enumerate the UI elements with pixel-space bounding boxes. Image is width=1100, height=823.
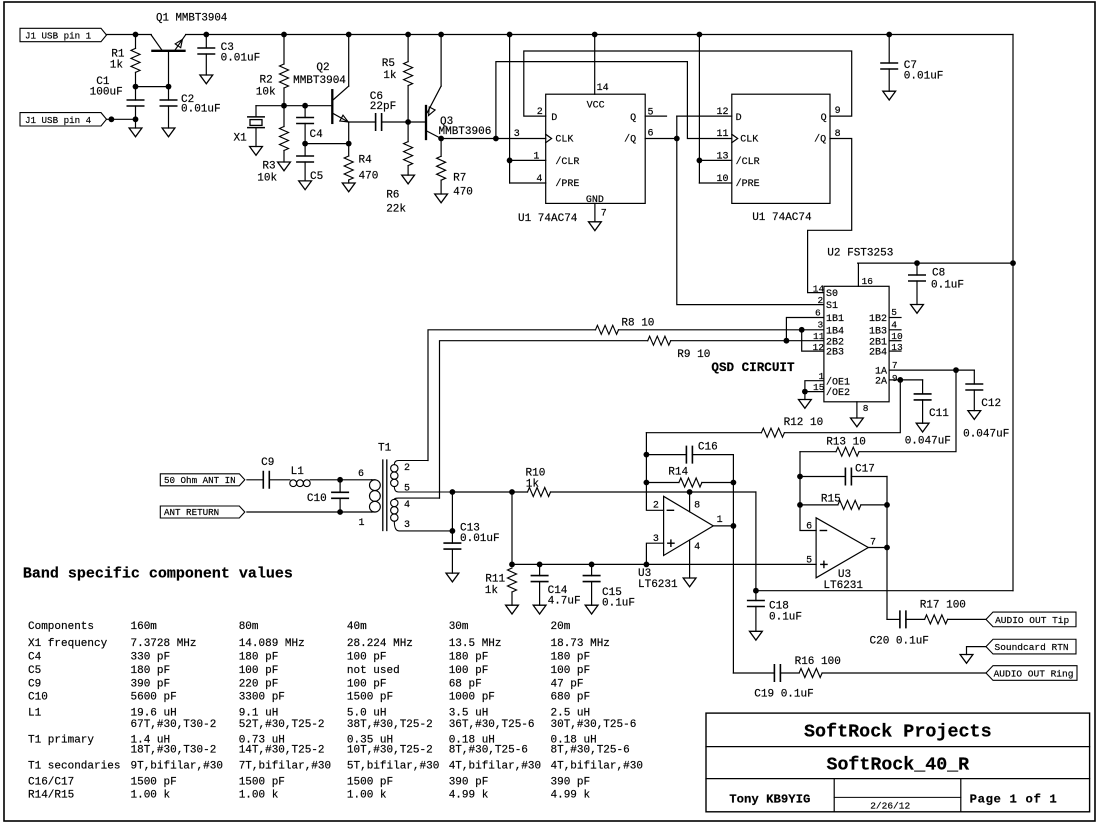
resistor R9 — [440, 341, 648, 498]
wire 2A output — [889, 379, 923, 381]
wire J1 pin1 to rail — [107, 34, 152, 36]
svg-text:4.99 k: 4.99 k — [551, 790, 591, 802]
svg-text:R11: R11 — [485, 574, 505, 586]
node rail pullup U1b — [697, 32, 703, 38]
resistor R3 — [283, 106, 285, 127]
node pin3/C13 — [450, 528, 456, 534]
svg-text:9.1 uH: 9.1 uH — [239, 708, 279, 720]
wire U1a Q pin5 stub — [645, 115, 666, 117]
svg-text:U1 74AC74: U1 74AC74 — [752, 212, 812, 224]
capacitor C3 — [205, 35, 207, 49]
svg-text:14.089 MHz: 14.089 MHz — [239, 638, 305, 650]
resistor R1 — [135, 35, 137, 49]
svg-text:390 pF: 390 pF — [449, 776, 489, 788]
svg-text:0.01uF: 0.01uF — [181, 104, 221, 116]
capacitor C1 — [135, 87, 137, 100]
svg-text:14T,#30,T25-2: 14T,#30,T25-2 — [239, 745, 325, 757]
ground under C13 — [446, 573, 459, 582]
node 1B4/2B3 link — [799, 327, 805, 333]
ground under R4 — [342, 183, 355, 192]
svg-text:10k: 10k — [257, 173, 277, 185]
mux U2 FST3253 — [824, 286, 889, 402]
resistor R10 — [452, 491, 527, 493]
ground under R6 — [402, 175, 415, 184]
svg-text:5T,bifilar,#30: 5T,bifilar,#30 — [347, 761, 439, 773]
svg-text:4: 4 — [694, 542, 700, 553]
node bias/R11 — [509, 562, 515, 568]
wire U1a pin7 GND — [594, 203, 596, 221]
svg-text:68 pF: 68 pF — [449, 678, 482, 690]
svg-text:/CLR: /CLR — [555, 156, 579, 168]
capacitor C11 — [922, 380, 924, 394]
svg-text:330 pF: 330 pF — [131, 652, 171, 664]
svg-text:C16/C17: C16/C17 — [28, 776, 74, 788]
svg-text:C17: C17 — [855, 464, 875, 476]
ground under C14 — [533, 605, 546, 614]
wire bias line — [512, 563, 816, 565]
node C6/R5/R6/Q3 base — [405, 119, 411, 125]
svg-text:R5: R5 — [382, 58, 395, 70]
capacitor C19 — [774, 665, 780, 681]
svg-text:4: 4 — [404, 500, 410, 511]
svg-text:1k: 1k — [485, 585, 499, 597]
flip-flop U1b 74AC74 — [732, 94, 830, 203]
svg-text:1: 1 — [717, 515, 723, 526]
svg-text:2: 2 — [404, 463, 410, 474]
svg-text:8: 8 — [863, 403, 869, 414]
plus sign U3b — [821, 563, 827, 565]
crystal X1 — [255, 106, 257, 117]
wire V+ down to C18 — [755, 492, 757, 591]
resistor R5 — [407, 35, 409, 62]
svg-text:T1: T1 — [378, 443, 392, 455]
svg-text:67T,#30,T30-2: 67T,#30,T30-2 — [131, 719, 217, 731]
svg-text:1B4: 1B4 — [826, 326, 844, 337]
svg-text:100 pF: 100 pF — [347, 678, 387, 690]
svg-text:not used: not used — [347, 665, 400, 677]
ground under /OE — [799, 400, 812, 409]
capacitor C9 — [247, 479, 263, 481]
svg-text:1k: 1k — [110, 60, 124, 72]
title block date line — [834, 796, 961, 798]
svg-text:J1 USB pin 1: J1 USB pin 1 — [25, 31, 92, 42]
pin 8 ground U2 — [856, 402, 858, 418]
svg-text:7: 7 — [870, 538, 876, 549]
svg-text:18.73 MHz: 18.73 MHz — [551, 638, 610, 650]
wire U3a feedback left vertical — [645, 433, 647, 483]
node rail/R1 — [133, 32, 139, 38]
svg-text:1500 pF: 1500 pF — [347, 692, 393, 704]
svg-text:28.224 MHz: 28.224 MHz — [347, 638, 413, 650]
resistor R15 — [800, 504, 838, 506]
svg-text:20m: 20m — [551, 621, 571, 633]
svg-text:4T,bifilar,#30: 4T,bifilar,#30 — [449, 761, 541, 773]
svg-text:180 pF: 180 pF — [239, 652, 279, 664]
svg-text:47 pF: 47 pF — [551, 678, 584, 690]
node rail/Q3 emitter — [438, 32, 444, 38]
svg-text:D: D — [736, 113, 742, 124]
svg-text:/Q: /Q — [814, 134, 826, 146]
title block row line 1 — [706, 746, 1090, 748]
wire U1a /Q pin6 — [645, 138, 677, 140]
node C1/pin4/ground — [133, 116, 139, 122]
svg-text:19.6 uH: 19.6 uH — [131, 708, 177, 720]
resistor R13 — [859, 370, 956, 452]
net flag 50 Ohm ANT IN — [160, 474, 245, 486]
svg-text:Tony KB9YIG: Tony KB9YIG — [729, 793, 810, 807]
svg-text:180 pF: 180 pF — [131, 665, 171, 677]
stub 1B3 — [889, 329, 901, 331]
transistor Q2 MMBT3904 — [331, 90, 333, 123]
node bias/C14 — [537, 562, 543, 568]
capacitor C18 — [755, 591, 757, 601]
svg-text:9: 9 — [892, 373, 898, 384]
svg-text:/CLR: /CLR — [736, 156, 760, 168]
capacitor C14 — [539, 564, 541, 575]
node 1B1/R9 net — [784, 338, 790, 344]
svg-text:3: 3 — [514, 129, 520, 140]
node V+ wire/pin8 — [687, 489, 693, 495]
svg-text:QSD CIRCUIT: QSD CIRCUIT — [711, 361, 795, 375]
svg-text:C9: C9 — [261, 457, 274, 469]
title block column line 1 — [833, 779, 835, 812]
svg-text:1k: 1k — [526, 479, 540, 491]
svg-text:100 pF: 100 pF — [551, 665, 591, 677]
svg-text:13.5 MHz: 13.5 MHz — [449, 638, 502, 650]
wire U3a pin4 ground — [689, 540, 691, 578]
svg-text:C19 0.1uF: C19 0.1uF — [754, 689, 813, 701]
svg-text:2/26/12: 2/26/12 — [870, 800, 910, 811]
svg-text:100 pF: 100 pF — [239, 665, 279, 677]
svg-text:470: 470 — [453, 187, 473, 199]
node Q1 base/C2 — [166, 84, 172, 90]
minus sign U3a — [667, 509, 673, 511]
svg-text:1B3: 1B3 — [869, 326, 887, 337]
svg-text:100uF: 100uF — [90, 87, 123, 99]
svg-text:T1 secondaries: T1 secondaries — [28, 761, 120, 773]
svg-text:0.01uF: 0.01uF — [904, 70, 944, 82]
svg-text:C10: C10 — [28, 692, 48, 704]
ground under C8 — [911, 305, 924, 314]
svg-text:4: 4 — [891, 319, 897, 330]
ground under C7 — [883, 91, 896, 100]
svg-text:470: 470 — [359, 171, 379, 183]
svg-text:36T,#30,T25-6: 36T,#30,T25-6 — [449, 719, 535, 731]
node Q3 collector/R7 — [438, 136, 444, 142]
svg-text:10T,#30,T25-2: 10T,#30,T25-2 — [347, 745, 433, 757]
svg-text:9T,bifilar,#30: 9T,bifilar,#30 — [131, 761, 223, 773]
capacitor C6 — [349, 121, 376, 123]
svg-text:X1 frequency: X1 frequency — [28, 638, 108, 650]
svg-text:T1 primary: T1 primary — [28, 734, 94, 746]
svg-text:C9: C9 — [28, 678, 41, 690]
wire divider to bias line — [511, 492, 513, 564]
svg-text:S0: S0 — [826, 289, 838, 300]
node /Q U1a — [674, 136, 680, 142]
resistor R7 — [440, 139, 442, 157]
flip-flop U1a 74AC74 — [546, 94, 646, 203]
svg-text:VCC: VCC — [587, 100, 605, 111]
svg-text:180 pF: 180 pF — [551, 652, 591, 664]
transformer T1 secondary A — [391, 465, 398, 472]
node 1A/R13 — [953, 367, 959, 373]
title block frame — [706, 713, 1090, 812]
svg-text:14: 14 — [813, 283, 825, 294]
svg-text:80m: 80m — [239, 621, 259, 633]
wire audio ring net — [733, 672, 774, 674]
svg-text:J1 USB pin 4: J1 USB pin 4 — [25, 115, 92, 126]
wire /OE1 /OE2 ground — [805, 381, 824, 392]
resistor R6 — [407, 122, 409, 142]
ground under C12 — [968, 411, 981, 420]
svg-text:CLK: CLK — [555, 135, 573, 146]
svg-text:30m: 30m — [449, 621, 469, 633]
node C4/base wire — [302, 103, 308, 109]
svg-text:R12 10: R12 10 — [784, 417, 824, 429]
svg-text:/Q: /Q — [624, 134, 636, 146]
capacitor C20 — [887, 618, 900, 620]
wire U1a pin14 VCC — [594, 35, 596, 95]
transformer T1 core — [382, 460, 384, 531]
svg-text:C11: C11 — [929, 408, 949, 420]
node C18 — [753, 588, 759, 594]
node R14 left — [644, 480, 650, 486]
svg-text:R3: R3 — [262, 161, 275, 173]
node C10 bottom — [337, 509, 343, 515]
svg-text:C12: C12 — [981, 398, 1001, 410]
capacitor C13 — [451, 531, 453, 543]
node rail/C8 branch — [1010, 260, 1016, 266]
node R1/C1 — [133, 84, 139, 90]
svg-text:2B1: 2B1 — [869, 337, 887, 348]
svg-text:5: 5 — [404, 483, 410, 494]
svg-text:/OE2: /OE2 — [826, 387, 850, 399]
wire U1a /CLR /PRE pullup — [509, 35, 511, 184]
stub 2B4 — [889, 350, 901, 352]
wire U3b feedback right vertical — [886, 477, 888, 620]
svg-text:U2 FST3253: U2 FST3253 — [827, 247, 893, 259]
wire U3a non-inverting input — [646, 543, 663, 564]
node rail pullup U1a — [507, 32, 513, 38]
wire oscillator base node — [256, 105, 332, 107]
svg-text:AUDIO OUT Tip: AUDIO OUT Tip — [995, 615, 1069, 626]
resistor R14 — [646, 482, 679, 484]
svg-text:SoftRock Projects: SoftRock Projects — [804, 722, 992, 743]
svg-text:LT6231: LT6231 — [823, 580, 863, 592]
node R10/R11 divider — [509, 489, 515, 495]
wire CLK net up and over to U1b CLK — [496, 62, 732, 139]
svg-text:ANT RETURN: ANT RETURN — [164, 507, 219, 518]
capacitor C17 — [800, 476, 845, 478]
svg-text:4T,bifilar,#30: 4T,bifilar,#30 — [551, 761, 643, 773]
inductor L1 — [290, 480, 297, 487]
svg-text:8T,#30,T25-6: 8T,#30,T25-6 — [551, 745, 630, 757]
svg-text:Q1 MMBT3904: Q1 MMBT3904 — [156, 13, 227, 25]
svg-text:10k: 10k — [256, 87, 276, 99]
svg-text:C5: C5 — [28, 665, 41, 677]
svg-text:/PRE: /PRE — [555, 178, 579, 190]
svg-text:22k: 22k — [386, 203, 406, 215]
resistor R11 — [508, 568, 517, 592]
capacitor C4 — [304, 106, 306, 118]
ground under X1 — [250, 147, 263, 156]
wire C4/C5 node to Q2 emitter — [305, 143, 349, 145]
svg-text:R14: R14 — [668, 467, 688, 479]
svg-text:X1: X1 — [233, 133, 247, 145]
svg-text:52T,#30,T25-2: 52T,#30,T25-2 — [239, 719, 325, 731]
svg-text:180 pF: 180 pF — [449, 652, 489, 664]
svg-text:C10: C10 — [307, 493, 327, 505]
svg-text:MMBT3904: MMBT3904 — [293, 75, 346, 87]
svg-text:0.1uF: 0.1uF — [602, 598, 635, 610]
wire L1 to T1 pin6 — [310, 479, 371, 481]
node rail/Q2 collector — [346, 32, 352, 38]
svg-text:Page 1 of 1: Page 1 of 1 — [970, 793, 1058, 807]
svg-text:18T,#30,T30-2: 18T,#30,T30-2 — [131, 745, 217, 757]
svg-text:390 pF: 390 pF — [131, 678, 171, 690]
wire R1 node to C2 node — [136, 86, 169, 88]
svg-text:3300 pF: 3300 pF — [239, 692, 285, 704]
svg-text:12: 12 — [717, 107, 729, 118]
node emitter/R4 — [346, 141, 352, 147]
wire 1B1 link — [786, 318, 824, 341]
ground under C11 — [916, 423, 929, 432]
svg-text:C8: C8 — [932, 267, 945, 279]
capacitor C12 — [973, 370, 975, 384]
net flag AUDIO OUT Tip — [986, 612, 1076, 627]
svg-text:7.3728 MHz: 7.3728 MHz — [131, 638, 197, 650]
svg-text:100 pF: 100 pF — [449, 665, 489, 677]
node U3a output — [731, 523, 737, 529]
svg-text:C16: C16 — [698, 442, 718, 454]
svg-text:5: 5 — [648, 108, 654, 119]
wire 2B3 link — [802, 330, 824, 351]
svg-text:680 pF: 680 pF — [551, 692, 591, 704]
stub 1B2 — [889, 317, 901, 319]
node rail/R2 — [281, 32, 287, 38]
svg-text:1500 pF: 1500 pF — [347, 776, 393, 788]
svg-text:D: D — [551, 113, 557, 124]
node C17 left — [797, 474, 803, 480]
wire C6 node to Q3 base — [408, 121, 426, 123]
title block row line 2 — [706, 778, 1090, 780]
svg-text:22pF: 22pF — [370, 101, 396, 113]
node bias/pin3 — [644, 562, 650, 568]
svg-text:L1: L1 — [291, 466, 305, 478]
svg-text:2B2: 2B2 — [826, 337, 844, 348]
svg-text:4.99 k: 4.99 k — [449, 790, 489, 802]
svg-text:R9 10: R9 10 — [677, 349, 710, 361]
capacitor C15 — [591, 564, 593, 575]
svg-text:R7: R7 — [453, 173, 466, 185]
svg-text:30T,#30,T25-6: 30T,#30,T25-6 — [551, 719, 637, 731]
node bias/C15 — [589, 562, 595, 568]
ground under U3a pin4 — [683, 578, 696, 587]
node /CLR U1b — [697, 158, 703, 164]
net flag J1 USB pin 1 — [20, 28, 107, 41]
node U3b output — [884, 545, 890, 551]
svg-text:3: 3 — [404, 520, 410, 531]
svg-text:AUDIO OUT Ring: AUDIO OUT Ring — [994, 669, 1074, 680]
svg-text:Soundcard RTN: Soundcard RTN — [995, 642, 1069, 653]
svg-text:1500 pF: 1500 pF — [131, 776, 177, 788]
svg-text:2B3: 2B3 — [826, 348, 844, 359]
svg-text:LT6231: LT6231 — [638, 579, 678, 591]
svg-text:5.0 uH: 5.0 uH — [347, 708, 387, 720]
svg-text:C20 0.1uF: C20 0.1uF — [870, 635, 929, 647]
svg-text:1B1: 1B1 — [826, 314, 844, 325]
capacitor C5 — [304, 144, 306, 156]
node R15 left — [797, 502, 803, 508]
svg-text:R2: R2 — [259, 75, 272, 87]
svg-text:5600 pF: 5600 pF — [131, 692, 177, 704]
node rail/C3 — [203, 32, 209, 38]
svg-text:R14/R15: R14/R15 — [28, 790, 74, 802]
svg-text:8T,#30,T25-6: 8T,#30,T25-6 — [449, 745, 528, 757]
ground under U1a — [589, 222, 602, 231]
svg-text:/PRE: /PRE — [736, 178, 760, 190]
svg-text:R17 100: R17 100 — [920, 600, 966, 612]
svg-text:1: 1 — [359, 518, 365, 529]
node C4/C5 — [302, 141, 308, 147]
svg-text:160m: 160m — [131, 621, 158, 633]
ground under C5 — [299, 181, 312, 190]
net flag AUDIO OUT Ring — [986, 666, 1077, 681]
svg-text:14: 14 — [597, 83, 609, 94]
wire U3a pin8 supply — [689, 492, 691, 512]
node rail/R5 — [405, 32, 411, 38]
svg-text:R15: R15 — [821, 494, 841, 506]
svg-text:7: 7 — [601, 208, 607, 219]
ground Soundcard RTN — [960, 655, 973, 664]
resistor R17 — [925, 615, 948, 624]
svg-text:0.1uF: 0.1uF — [769, 611, 802, 623]
svg-text:/OE1: /OE1 — [826, 376, 850, 388]
svg-text:0.047uF: 0.047uF — [905, 436, 951, 448]
svg-text:100 pF: 100 pF — [347, 652, 387, 664]
resistor R12 — [784, 380, 900, 433]
svg-text:5: 5 — [891, 307, 897, 318]
svg-text:2: 2 — [818, 295, 824, 306]
wire /Q U1a to U1b D and U2 S1 — [677, 116, 824, 305]
wire ANT RETURN to T1 pin1 — [247, 511, 372, 513]
transistor Q3 MMBT3906 — [425, 106, 427, 139]
svg-text:SoftRock_40_R: SoftRock_40_R — [826, 756, 969, 776]
ground under R3 — [278, 162, 291, 171]
svg-text:MMBT3906: MMBT3906 — [439, 126, 492, 138]
wire U1b /Q to U2 S0 — [808, 139, 852, 293]
svg-text:1.00 k: 1.00 k — [347, 790, 387, 802]
node CLK net branch — [493, 136, 499, 142]
svg-text:U1 74AC74: U1 74AC74 — [518, 213, 578, 225]
svg-text:40m: 40m — [347, 621, 367, 633]
svg-text:9: 9 — [835, 106, 841, 117]
ground under R7 — [435, 194, 448, 203]
node C8 — [914, 260, 920, 266]
node R15 right — [884, 502, 890, 508]
transistor Q1 MMBT3904 — [152, 50, 184, 52]
svg-text:0.01uF: 0.01uF — [460, 533, 500, 545]
wire J1 pin4 to C1/ground — [107, 118, 136, 120]
node /CLR U1a — [507, 158, 513, 164]
svg-text:5: 5 — [806, 556, 812, 567]
stub 2B1 — [889, 340, 901, 342]
node R14 right — [731, 480, 737, 486]
svg-text:R13 10: R13 10 — [826, 437, 866, 449]
op-amp U3b LT6231 — [816, 518, 868, 578]
svg-text:3.5 uH: 3.5 uH — [449, 708, 489, 720]
svg-text:C5: C5 — [310, 171, 323, 183]
